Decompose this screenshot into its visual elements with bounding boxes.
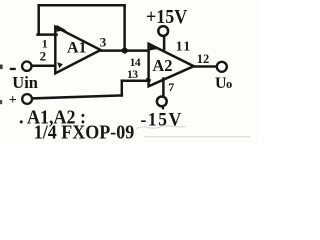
scan artifact left edge mark lower	[0, 100, 2, 104]
terminal circle Uo	[217, 62, 227, 72]
wire feedback right vertical	[123, 5, 126, 50]
terminal circle input plus	[22, 94, 32, 104]
wire A2 output pin 12	[193, 65, 217, 68]
arrowhead pin 2 entry	[57, 62, 63, 68]
wire pin 11 supply	[163, 36, 166, 51]
svg-text:Uin: Uin	[12, 73, 38, 92]
scan stub below -15V terminal	[162, 106, 164, 108]
wire input minus to A1 pin 2	[32, 65, 56, 68]
arrowhead pin 14 entry	[150, 43, 159, 51]
wire feedback top	[39, 4, 125, 7]
svg-text:A2: A2	[152, 56, 172, 75]
op-amp A1	[55, 27, 100, 74]
svg-text:1/4 FXOP-09: 1/4 FXOP-09	[34, 122, 134, 143]
svg-text:7: 7	[168, 80, 174, 94]
wire pin 13 into A2	[122, 79, 150, 82]
svg-text:14: 14	[130, 57, 141, 69]
terminal circle -15V	[157, 97, 167, 107]
svg-text:13: 13	[127, 69, 138, 81]
svg-text:2: 2	[40, 48, 47, 63]
terminal circle input minus	[22, 61, 31, 70]
svg-text:+: +	[9, 93, 17, 108]
svg-text:11: 11	[176, 38, 192, 53]
scan artifact faint squiggle	[136, 126, 186, 129]
arrowhead pin 1 entry	[57, 25, 67, 32]
wire riser to pin 13	[121, 81, 124, 96]
svg-text:12: 12	[197, 52, 210, 66]
scan artifact left edge mark upper	[0, 65, 3, 70]
arrowhead pin 13 entry	[146, 78, 152, 83]
wire input plus rail	[32, 95, 122, 98]
svg-text:A1: A1	[67, 40, 87, 57]
wire feedback left vertical	[37, 5, 40, 34]
wire pin 7 supply	[162, 79, 165, 97]
label minus sign input	[10, 68, 16, 70]
op-amp A2	[149, 44, 194, 87]
svg-text:o: o	[226, 77, 232, 91]
svg-text:3: 3	[100, 34, 107, 49]
wire A1 output pin 3 to A2 pin 14	[100, 49, 149, 52]
svg-text:+15V: +15V	[146, 6, 188, 28]
scan artifact bottom faint rule	[144, 136, 250, 137]
terminal circle +15V	[158, 26, 168, 36]
junction node	[122, 48, 128, 54]
wire pin 1 stub into A1	[38, 33, 57, 36]
